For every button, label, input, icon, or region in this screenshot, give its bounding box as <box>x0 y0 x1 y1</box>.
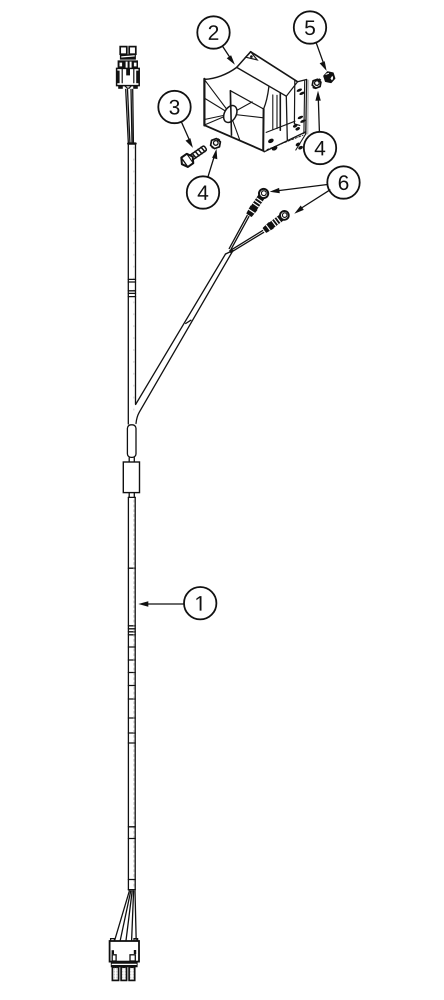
cable tick <box>128 742 135 744</box>
harness cable 1 lower sheath <box>128 496 135 498</box>
prongs <box>112 967 118 980</box>
bolt 3 <box>179 143 209 169</box>
sheath tick band <box>128 279 135 282</box>
splice sleeve (capsule) <box>127 425 136 458</box>
latch bar <box>120 54 136 59</box>
front face right edge <box>230 91 231 135</box>
mouth rim line <box>230 91 263 109</box>
cable tick <box>128 567 135 569</box>
wire pair from connector P1 to cable <box>126 89 130 142</box>
wires fanning to connector P2 <box>115 891 130 941</box>
branch sheath to alarm <box>136 254 226 405</box>
body <box>117 68 140 85</box>
cable tick <box>128 672 135 674</box>
feet <box>118 85 123 88</box>
cable tick <box>128 698 135 700</box>
top right edge <box>251 52 298 82</box>
callout 4 (right) <box>304 91 336 165</box>
nut 4b <box>311 78 323 89</box>
latch tabs <box>120 47 127 55</box>
base band <box>111 962 138 968</box>
mount holes E F <box>267 138 274 144</box>
connector P1 (top plug) <box>116 47 139 89</box>
plate slot A <box>296 88 302 93</box>
callout 6 <box>270 166 360 213</box>
connector P2 (bottom plug) <box>110 939 139 981</box>
ring terminal 6b (lower) <box>262 209 290 233</box>
top bell curve <box>204 67 236 79</box>
lock tabs <box>112 955 116 961</box>
mount holes D <box>295 142 301 147</box>
crest edge <box>237 67 287 96</box>
horn radial ribs <box>204 80 230 125</box>
cable tick <box>128 838 135 840</box>
callout 4 (lower) <box>187 149 219 209</box>
mounting plate <box>306 80 309 135</box>
callout 5 <box>294 11 327 71</box>
cable tick <box>128 659 135 661</box>
ring terminal 6a (upper) <box>245 187 270 217</box>
cable inner shading <box>133 500 135 888</box>
cable tick <box>128 717 135 719</box>
cable tick band <box>128 626 135 635</box>
mount holes C <box>292 123 298 128</box>
cable end cap <box>128 880 135 890</box>
side step lines <box>272 95 274 130</box>
horn throat ellipse <box>221 103 240 124</box>
wire to upper ring terminal <box>229 215 249 249</box>
collar band <box>118 60 138 68</box>
callout 2 <box>197 16 235 65</box>
nut 5 <box>323 71 336 82</box>
back corner fold <box>246 52 258 60</box>
wire to lower ring terminal <box>230 231 264 253</box>
bottom rear edge <box>264 132 306 152</box>
callout 3 <box>158 91 193 148</box>
nut 4a <box>209 138 222 150</box>
left edge <box>203 79 205 126</box>
harness cable 1 upper sheath <box>128 142 135 144</box>
sheath tick band <box>128 291 135 294</box>
plate slot B <box>297 115 303 120</box>
cable tick <box>128 685 135 687</box>
mouth right edge <box>262 109 264 151</box>
branch sheath tick <box>186 320 191 323</box>
connector block sleeve <box>123 462 139 493</box>
sheath tick <box>128 296 135 298</box>
bottom front edge <box>204 125 263 151</box>
callout 1 <box>138 587 216 619</box>
backup alarm 2 (horn body) <box>204 52 309 152</box>
cable tick <box>128 732 135 734</box>
cable tick <box>128 826 135 828</box>
cable tick <box>128 646 135 648</box>
